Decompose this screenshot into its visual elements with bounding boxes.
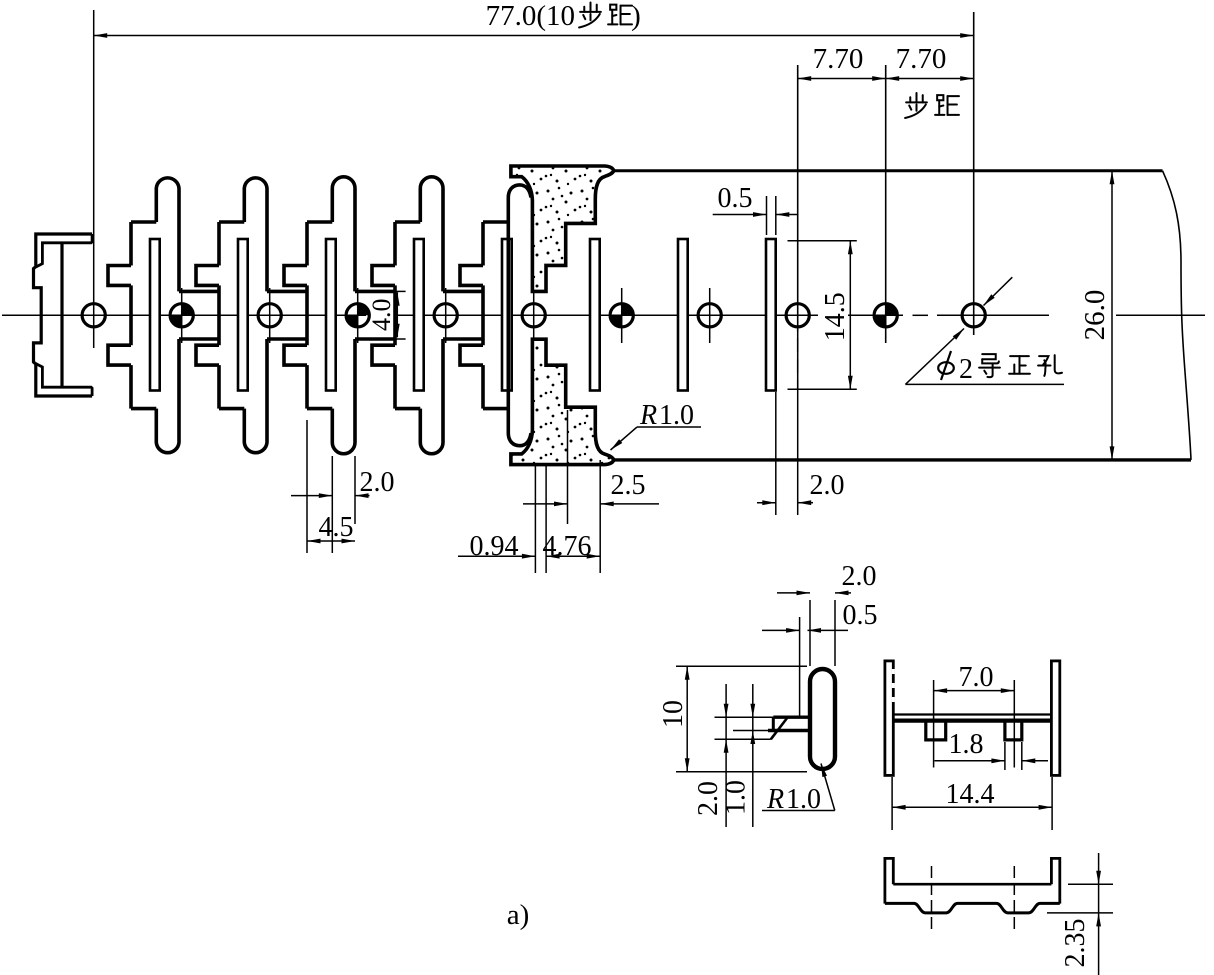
pilot hole circle station 6 xyxy=(522,304,545,327)
detail2 tab 1 xyxy=(926,723,946,740)
svg-text:26.0: 26.0 xyxy=(1079,290,1111,341)
punched slot station 5 xyxy=(414,239,424,391)
label phi2 xyxy=(938,351,954,380)
strip top edge xyxy=(609,169,1163,172)
dim 7.70 right xyxy=(886,78,974,80)
detail1 dim 10 xyxy=(676,665,807,667)
cross cut contour 5 xyxy=(481,222,485,266)
svg-text:0.94: 0.94 xyxy=(470,531,519,562)
cross lower tab 1 xyxy=(108,345,131,365)
svg-text:2.0: 2.0 xyxy=(810,470,845,501)
pilot hole circle station 10 xyxy=(874,304,897,327)
detail2 right flange xyxy=(1051,661,1059,776)
pilot hole circle station 5 xyxy=(434,304,457,327)
dim 14.5 slot length xyxy=(788,240,857,242)
dim 2.0 slot9 xyxy=(775,392,777,515)
svg-text:4.0: 4.0 xyxy=(367,298,396,331)
cross upper tab 5 xyxy=(460,266,483,286)
pilot hole circle station 11 xyxy=(962,304,985,327)
punched slot station 7 xyxy=(590,239,600,391)
pilot centerline station 8 xyxy=(709,288,711,343)
detail3 left flange xyxy=(885,858,893,903)
glyph bu xyxy=(579,3,601,28)
dim 2.5 formed part xyxy=(567,410,569,524)
svg-text:2.5: 2.5 xyxy=(611,470,646,501)
strip bottom edge xyxy=(609,458,1191,461)
pilot centerline station 7 xyxy=(621,288,623,343)
svg-text:2.0: 2.0 xyxy=(693,781,724,816)
leader phi2 pilot hole xyxy=(984,277,1013,305)
svg-text:1.0: 1.0 xyxy=(721,780,752,815)
detail1 dim 1.0 vertical xyxy=(752,684,754,827)
stadium slot contour station 4 xyxy=(332,177,355,292)
pilot hole circle station 9 xyxy=(786,304,809,327)
pilot centerline station 10 xyxy=(885,65,887,343)
svg-text:0.5: 0.5 xyxy=(843,600,878,631)
detail3 right flange xyxy=(1051,858,1059,903)
strip break line xyxy=(1163,171,1192,460)
pilot centerline station 9 xyxy=(797,65,799,332)
detail1 part side profile xyxy=(810,669,835,769)
punched slot station 2 xyxy=(150,239,160,391)
formed section lower half xyxy=(511,339,614,464)
cross lower tab 5 xyxy=(460,345,483,365)
svg-text:2.0: 2.0 xyxy=(360,467,395,498)
glyph zheng xyxy=(1009,356,1030,374)
dim 77.0 (10 steps) xyxy=(973,12,975,335)
cross upper tab 1 xyxy=(108,266,131,286)
stadium slot contour station 2 xyxy=(156,178,179,292)
detail3 dim 2.35 xyxy=(1068,883,1113,885)
glyph ju xyxy=(935,95,959,115)
pilot hole circle station 3 xyxy=(258,304,281,327)
detail2 flange bend dash gaps xyxy=(892,669,895,674)
formed section upper half xyxy=(511,166,614,291)
cross upper tab 4 xyxy=(372,266,395,286)
svg-text:): ) xyxy=(631,0,641,32)
carrier neck lines 5 xyxy=(443,290,483,294)
cross cut contour 3 xyxy=(305,222,309,266)
detail3 top surface xyxy=(893,883,1051,886)
detail2 dim 1.8 xyxy=(1004,742,1006,770)
svg-text:4.76: 4.76 xyxy=(543,531,592,562)
stadium slot contour station 3 xyxy=(244,178,267,292)
svg-text:7.70: 7.70 xyxy=(896,43,947,75)
svg-text:10: 10 xyxy=(658,700,689,728)
punched slot station 9 xyxy=(766,239,776,391)
dim 26.0 strip width xyxy=(1111,171,1113,460)
detail1 dim 0.5 xyxy=(762,629,800,631)
cross lower tab 3 xyxy=(284,345,307,365)
svg-text:14.4: 14.4 xyxy=(946,779,995,810)
svg-text:1.8: 1.8 xyxy=(949,729,984,760)
svg-text:4.5: 4.5 xyxy=(319,512,354,543)
dim 4.5 station4 xyxy=(307,540,355,542)
pilot hole circle station 7 xyxy=(610,304,633,327)
finished part inner lip bottom xyxy=(35,363,93,396)
punched slot station 6 xyxy=(502,239,512,391)
detail2 tab 2 xyxy=(1005,723,1022,740)
pilot centerline station 1 xyxy=(93,10,95,348)
dim 0.94 / 4.76 formed part xyxy=(534,466,536,573)
svg-text:7.70: 7.70 xyxy=(813,43,864,75)
detail3 centerline tab1 xyxy=(931,866,933,931)
pilot hole circle station 1 xyxy=(82,304,105,327)
cross upper tab 2 xyxy=(196,266,219,286)
finished part outline xyxy=(34,234,93,396)
finished part inner lip top xyxy=(35,234,93,268)
detail1 extension lines xyxy=(715,716,774,718)
detail2 web lines xyxy=(893,713,1051,715)
detail1 dim 2.0 vertical xyxy=(725,684,727,827)
svg-text:0.5: 0.5 xyxy=(718,183,753,214)
finished part web line xyxy=(60,243,63,387)
cross cut contour 4 xyxy=(393,222,397,266)
cross cut contour 1 xyxy=(129,222,133,266)
svg-text:7.0: 7.0 xyxy=(959,662,994,693)
detail2 left flange xyxy=(885,661,893,776)
pilot hole circle station 8 xyxy=(698,304,721,327)
detail2 dim 14.4 xyxy=(891,777,893,830)
cross cut contour 2 xyxy=(217,222,221,266)
svg-text:2: 2 xyxy=(959,354,973,385)
dim 0.5 slot width xyxy=(766,196,768,235)
pilot centerline station 2 xyxy=(181,288,183,343)
pilot centerline station 11 xyxy=(973,12,975,335)
svg-text:2.0: 2.0 xyxy=(842,561,877,592)
pilot hole circle station 4 xyxy=(346,304,369,327)
pilot centerline station 5 xyxy=(445,288,447,343)
detail3 centerline tab2 xyxy=(1013,866,1015,931)
carrier neck lines 4 xyxy=(355,290,395,294)
detail1 bent tab xyxy=(773,716,810,719)
detail2 dim 7.0 xyxy=(933,680,935,768)
svg-text:77.0(10: 77.0(10 xyxy=(486,0,575,32)
cross lower tab 2 xyxy=(196,345,219,365)
glyph dao xyxy=(979,354,1000,377)
detail1 dim 2.0 top xyxy=(777,592,810,594)
punched slot station 8 xyxy=(678,239,688,391)
carrier neck lines 3 xyxy=(267,290,307,294)
punched slot station 3 xyxy=(238,239,248,391)
detail3 formed bottom profile xyxy=(885,903,1060,913)
svg-text:14.5: 14.5 xyxy=(820,292,851,341)
cross lower tab 4 xyxy=(372,345,395,365)
pilot centerline station 3 xyxy=(269,288,271,343)
glyph ju xyxy=(608,5,632,25)
pilot centerline station 4 xyxy=(357,288,359,343)
glyph kong xyxy=(1038,355,1062,376)
stadium slot contour station 6 xyxy=(508,185,531,446)
dim 2.0 station4 xyxy=(306,420,308,553)
dim 4.0 neck height xyxy=(395,290,406,292)
dim 7.70 left xyxy=(797,65,799,515)
pilot centerline station 6 xyxy=(533,288,535,343)
stadium slot contour station 5 xyxy=(420,177,443,292)
pilot hole circle station 2 xyxy=(170,304,193,327)
punched slot station 4 xyxy=(326,239,336,391)
strip centerline xyxy=(2,314,366,316)
cross upper tab 3 xyxy=(284,266,307,286)
svg-text:a): a) xyxy=(507,899,530,931)
glyph bu xyxy=(905,93,927,118)
svg-text:2.35: 2.35 xyxy=(1060,919,1091,968)
carrier neck lines 2 xyxy=(179,290,219,294)
